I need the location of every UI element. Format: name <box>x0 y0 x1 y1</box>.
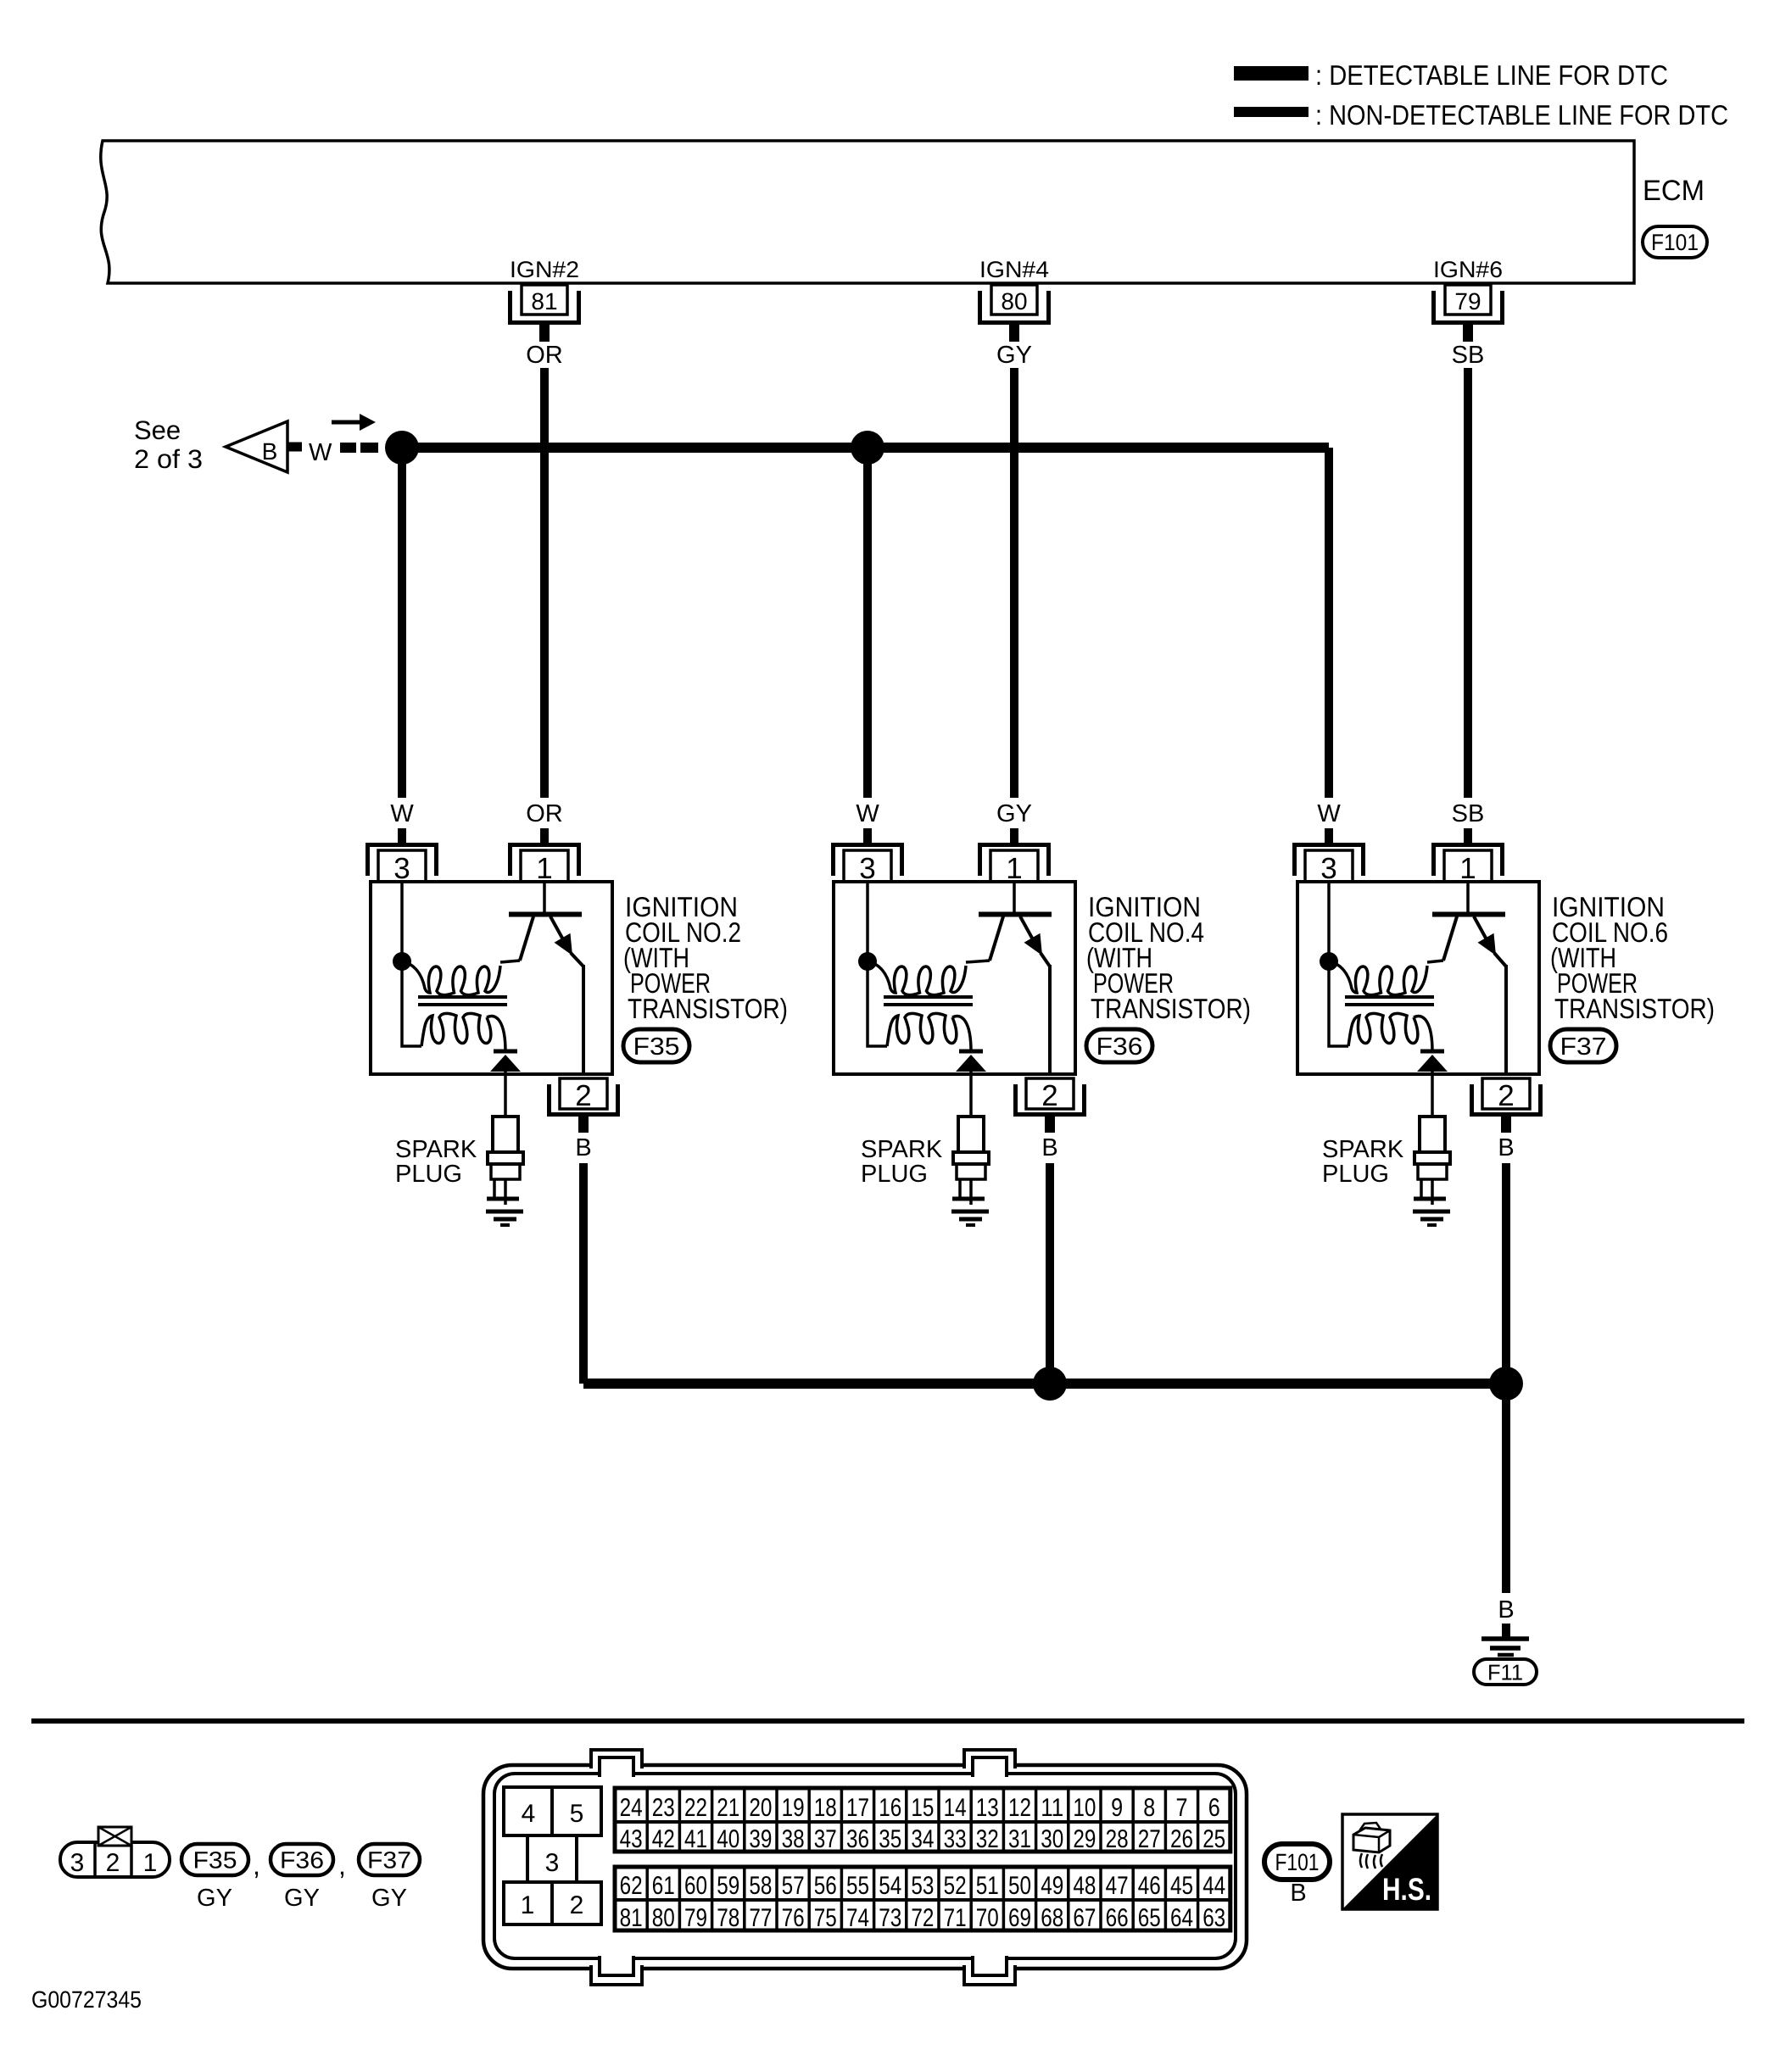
svg-text:TRANSISTOR): TRANSISTOR) <box>1554 993 1715 1024</box>
svg-text:64: 64 <box>1170 1904 1193 1932</box>
svg-text:80: 80 <box>652 1904 675 1932</box>
svg-text:2: 2 <box>575 1079 591 1112</box>
ECM pin grid upper (pins 6-43) <box>615 1788 1230 1852</box>
svg-text:47: 47 <box>1106 1872 1129 1900</box>
transistor Q2 emitter arrow <box>555 933 573 955</box>
svg-text:2: 2 <box>106 1849 120 1877</box>
wire W to coil pin 3 <box>398 828 406 844</box>
wire W bus corner down <box>1325 448 1333 798</box>
ignition coil no.6 pin 2 box <box>1482 1078 1530 1109</box>
svg-text:2: 2 <box>1498 1079 1514 1112</box>
svg-text:28: 28 <box>1106 1825 1129 1853</box>
svg-text:63: 63 <box>1202 1904 1225 1932</box>
wire inside coil 2 from pin 3 <box>402 882 421 1046</box>
pin 79 box <box>1445 285 1491 315</box>
svg-text:26: 26 <box>1170 1825 1193 1853</box>
ground (spark plug 4) <box>951 1210 989 1214</box>
wire stub pin 2 <box>578 1117 589 1133</box>
svg-text:W: W <box>856 800 879 827</box>
wire diode to spark plug <box>1431 1072 1434 1117</box>
transformer secondary coil 2 <box>421 1013 491 1046</box>
wire diode to spark plug <box>969 1072 973 1117</box>
svg-text:4: 4 <box>522 1800 536 1828</box>
ECM box <box>101 141 1634 283</box>
svg-text:1: 1 <box>143 1849 158 1877</box>
emitter to pin 2 wire <box>1041 953 1050 966</box>
svg-text:18: 18 <box>814 1794 837 1822</box>
svg-text:7: 7 <box>1176 1794 1188 1822</box>
wire SB to coil pin 1 <box>1464 828 1472 844</box>
svg-text:31: 31 <box>1008 1825 1031 1853</box>
connector tab bottom <box>964 1964 1015 1972</box>
ground symbol F11 <box>1481 1636 1529 1641</box>
svg-text:79: 79 <box>684 1904 707 1932</box>
pin 80 box <box>991 285 1037 315</box>
svg-text:17: 17 <box>846 1794 869 1822</box>
off-page connector B triangle <box>226 421 287 472</box>
svg-text:TRANSISTOR): TRANSISTOR) <box>1091 993 1251 1024</box>
svg-text:ECM: ECM <box>1643 175 1705 207</box>
svg-text:78: 78 <box>717 1904 739 1932</box>
ignition coil no.4 box <box>834 882 1075 1074</box>
svg-text:B: B <box>1041 1134 1057 1161</box>
svg-text:F37: F37 <box>1560 1033 1607 1061</box>
svg-text:IGN#6: IGN#6 <box>1433 257 1503 282</box>
separator line <box>31 1718 1744 1724</box>
wire GY to coil pin 1 <box>1010 828 1018 844</box>
spark plug 6 collar <box>1415 1152 1450 1164</box>
pin 81 box <box>522 285 567 315</box>
svg-text:9: 9 <box>1111 1794 1123 1822</box>
ECM connector inner shell <box>494 1774 1236 1958</box>
svg-text:59: 59 <box>717 1872 739 1900</box>
transistor Q6 emitter arrow <box>1478 933 1497 955</box>
svg-text:2: 2 <box>570 1891 584 1919</box>
svg-text:49: 49 <box>1041 1872 1063 1900</box>
svg-text:67: 67 <box>1073 1904 1096 1932</box>
svg-text:74: 74 <box>846 1904 869 1932</box>
ignition coil no.2 pin 2 box <box>560 1078 607 1109</box>
svg-text:GY: GY <box>371 1885 407 1912</box>
transformer core coil 6 <box>1345 995 1434 999</box>
primary to transistor wire <box>1427 961 1443 962</box>
wire W to coil pin 3 <box>1325 828 1333 844</box>
svg-text:73: 73 <box>879 1904 901 1932</box>
svg-text:34: 34 <box>911 1825 934 1853</box>
svg-text:46: 46 <box>1138 1872 1161 1900</box>
transformer primary coil 6 <box>1329 961 1427 995</box>
ECM connector outer shell <box>483 1765 1247 1969</box>
transformer primary coil 4 <box>868 961 966 995</box>
wire B coil 6 down <box>1502 1163 1510 1384</box>
wire stub from triangle <box>287 443 302 452</box>
transistor Q2 base wire <box>543 882 546 912</box>
svg-text:20: 20 <box>749 1794 772 1822</box>
svg-text:57: 57 <box>782 1872 805 1900</box>
ignition coil no.6 pin 2 bracket <box>1472 1084 1541 1115</box>
primary to transistor wire <box>966 961 990 962</box>
svg-text:B: B <box>1498 1134 1514 1161</box>
svg-text:F36: F36 <box>280 1847 324 1874</box>
connector tab top <box>591 1762 642 1769</box>
svg-text:16: 16 <box>879 1794 901 1822</box>
svg-text:71: 71 <box>944 1904 967 1932</box>
wire stub ground <box>1502 1624 1510 1637</box>
svg-text:B: B <box>575 1134 591 1161</box>
svg-text:39: 39 <box>749 1825 772 1853</box>
ECM pin grid lower (pins 44-81) <box>615 1867 1230 1930</box>
ignition coil no.6 pin 1 bracket <box>1434 845 1503 877</box>
svg-text:25: 25 <box>1202 1825 1225 1853</box>
secondary to diode wire <box>487 1017 505 1051</box>
pin 80 bracket <box>980 291 1049 323</box>
transformer secondary coil 6 <box>1348 1013 1418 1046</box>
svg-text:54: 54 <box>879 1872 901 1900</box>
coil connector face pill <box>60 1842 170 1877</box>
ignition coil no.6 box <box>1297 882 1539 1074</box>
spark plug 6 lower <box>1418 1164 1447 1179</box>
wire W bus horizontal <box>386 443 1329 453</box>
ignition coil no.4 pin 2 bracket <box>1016 1084 1085 1115</box>
svg-text:65: 65 <box>1138 1904 1161 1932</box>
ignition coil no.6 pin 3 bracket <box>1295 845 1364 877</box>
spark plug 2 collar <box>488 1152 523 1164</box>
svg-text:G00727345: G00727345 <box>31 1986 142 2013</box>
transistor Q2 collector diag <box>520 916 533 961</box>
junction dot coil 6 <box>1320 952 1338 971</box>
ground (spark plug 2) <box>486 1210 523 1214</box>
svg-text:80: 80 <box>1001 288 1027 315</box>
connector tab bottom <box>591 1964 642 1972</box>
spark plug 4 lower <box>957 1164 985 1179</box>
svg-text:SB: SB <box>1452 800 1485 827</box>
diode D2 <box>490 1055 521 1072</box>
wire inside coil 4 from pin 3 <box>868 882 887 1046</box>
pin 81 bracket <box>511 291 579 323</box>
transformer secondary coil 4 <box>887 1013 957 1046</box>
ignition coil no.4 pin 1 bracket <box>980 845 1049 877</box>
svg-text:: NON-DETECTABLE LINE FOR DTC: : NON-DETECTABLE LINE FOR DTC <box>1315 99 1728 131</box>
svg-text:15: 15 <box>911 1794 934 1822</box>
svg-text:F101: F101 <box>1651 230 1699 255</box>
svg-text:42: 42 <box>652 1825 675 1853</box>
svg-text:21: 21 <box>717 1794 739 1822</box>
connector F101 (ECM) <box>1643 226 1707 258</box>
junction dot coil 4 <box>858 952 877 971</box>
svg-text:F11: F11 <box>1487 1659 1523 1685</box>
ignition coil no.2 pin 1 bracket <box>511 845 579 877</box>
junction dot D <box>1489 1367 1523 1401</box>
wire B coil 4 down <box>1046 1163 1054 1384</box>
svg-text:23: 23 <box>652 1794 675 1822</box>
transformer primary coil 2 <box>402 961 500 995</box>
ignition coil no.4 pin 2 box <box>1026 1078 1074 1109</box>
ignition coil no.4 pin 3 bracket <box>834 845 902 877</box>
svg-text:PLUG: PLUG <box>861 1161 928 1188</box>
primary to transistor wire <box>500 961 520 962</box>
svg-text:55: 55 <box>846 1872 869 1900</box>
transistor Q4 base bar <box>979 912 1052 917</box>
wire stub pin 2 <box>1501 1117 1511 1133</box>
svg-text:70: 70 <box>976 1904 999 1932</box>
wire stub pin 81 <box>539 325 550 342</box>
wire W to coil pin 3 <box>863 828 872 844</box>
svg-text:38: 38 <box>782 1825 805 1853</box>
spark plug 4 electrodes <box>969 1179 973 1205</box>
svg-text:SPARK: SPARK <box>1322 1136 1404 1163</box>
svg-text:36: 36 <box>846 1825 869 1853</box>
svg-text:51: 51 <box>976 1872 999 1900</box>
ignition coil no.4 pin 3 box <box>844 850 891 882</box>
svg-text:50: 50 <box>1008 1872 1031 1900</box>
connector F35 <box>623 1029 689 1062</box>
coil connector dividers <box>93 1842 97 1877</box>
svg-text:35: 35 <box>879 1825 901 1853</box>
transistor Q6 base bar <box>1432 912 1505 917</box>
connector F36 <box>1086 1029 1152 1062</box>
svg-text:81: 81 <box>531 288 557 315</box>
diode D4 cathode bar <box>959 1050 983 1054</box>
svg-text:TRANSISTOR): TRANSISTOR) <box>628 993 788 1024</box>
svg-text:75: 75 <box>814 1904 837 1932</box>
spark plug 6 electrodes <box>1431 1179 1434 1205</box>
transistor Q2 base bar <box>509 912 582 917</box>
svg-text:12: 12 <box>1008 1794 1031 1822</box>
svg-text:58: 58 <box>749 1872 772 1900</box>
ignition coil no.6 pin 1 box <box>1444 850 1492 882</box>
svg-text:W: W <box>390 800 414 827</box>
svg-text:1: 1 <box>521 1891 535 1919</box>
connector F35 (bottom) <box>181 1844 248 1875</box>
svg-text:IGN#4: IGN#4 <box>979 257 1049 282</box>
emitter to pin 2 wire <box>571 953 583 966</box>
transistor Q4 base wire <box>1013 882 1016 912</box>
svg-text:61: 61 <box>652 1872 675 1900</box>
svg-text:F101: F101 <box>1275 1849 1320 1875</box>
svg-text:F36: F36 <box>1096 1033 1143 1061</box>
svg-text:8: 8 <box>1143 1794 1155 1822</box>
H.S. icon plug glyph <box>1360 1823 1380 1833</box>
transistor Q4 collector diag <box>990 916 1003 961</box>
junction dot B <box>851 431 884 465</box>
transistor Q2 emitter diag <box>550 916 564 941</box>
svg-text:69: 69 <box>1008 1904 1031 1932</box>
spark plug 2 electrodes <box>504 1179 507 1205</box>
svg-text:29: 29 <box>1073 1825 1096 1853</box>
direction arrow <box>332 421 361 425</box>
connector tab top <box>964 1762 1015 1769</box>
svg-text:32: 32 <box>976 1825 999 1853</box>
wire diode to spark plug <box>504 1072 507 1117</box>
svg-text:52: 52 <box>944 1872 967 1900</box>
diode D2 cathode bar <box>494 1050 517 1054</box>
svg-text:2: 2 <box>1041 1079 1057 1112</box>
svg-text:48: 48 <box>1073 1872 1096 1900</box>
wire OR vertical <box>540 368 549 798</box>
svg-text:22: 22 <box>684 1794 707 1822</box>
svg-text:H.S.: H.S. <box>1382 1872 1431 1907</box>
svg-text:62: 62 <box>620 1872 643 1900</box>
svg-text:GY: GY <box>996 342 1032 369</box>
svg-text:W: W <box>1317 800 1341 827</box>
svg-text:IGN#2: IGN#2 <box>510 257 579 282</box>
svg-text:F35: F35 <box>633 1033 680 1061</box>
connector F36 (bottom) <box>271 1844 333 1875</box>
ignition coil no.4 pin 1 box <box>990 850 1038 882</box>
svg-text:40: 40 <box>717 1825 739 1853</box>
svg-text:79: 79 <box>1454 288 1481 315</box>
diode D4 <box>956 1055 986 1072</box>
svg-text:,: , <box>338 1850 346 1880</box>
svg-text:,: , <box>253 1850 260 1880</box>
spark plug 2 body <box>493 1117 518 1152</box>
connector F37 (bottom) <box>359 1844 420 1875</box>
wire B bus horizontal <box>583 1379 1506 1389</box>
svg-text:41: 41 <box>684 1825 707 1853</box>
svg-text:72: 72 <box>911 1904 934 1932</box>
H.S. icon triangle <box>1342 1814 1437 1909</box>
wire B to ground <box>1502 1384 1510 1593</box>
pin cells 4 5 <box>504 1787 601 1835</box>
legend non-detectable bar <box>1234 107 1308 117</box>
junction dot A <box>385 431 419 465</box>
svg-text:44: 44 <box>1202 1872 1225 1900</box>
svg-text:19: 19 <box>782 1794 805 1822</box>
wire W drop 2 <box>863 453 872 798</box>
transistor Q4 emitter arrow <box>1024 933 1043 955</box>
svg-text:45: 45 <box>1170 1872 1193 1900</box>
svg-text:3: 3 <box>545 1849 560 1877</box>
svg-text:B: B <box>262 438 278 465</box>
svg-text:SPARK: SPARK <box>395 1136 477 1163</box>
svg-text:10: 10 <box>1073 1794 1096 1822</box>
H.S. icon frame <box>1342 1814 1437 1909</box>
svg-text:2 of 3: 2 of 3 <box>134 444 203 474</box>
svg-text:13: 13 <box>976 1794 999 1822</box>
ignition coil no.2 pin 2 bracket <box>550 1084 618 1115</box>
svg-text:: DETECTABLE LINE FOR DTC: : DETECTABLE LINE FOR DTC <box>1315 59 1668 91</box>
svg-text:F35: F35 <box>193 1847 237 1874</box>
spark plug 4 collar <box>953 1152 989 1164</box>
svg-text:GY: GY <box>284 1885 320 1912</box>
svg-text:OR: OR <box>526 342 563 369</box>
svg-text:6: 6 <box>1208 1794 1220 1822</box>
ignition coil no.2 box <box>371 882 612 1074</box>
svg-text:GY: GY <box>996 800 1032 827</box>
svg-text:68: 68 <box>1041 1904 1063 1932</box>
wire B coil 2 down <box>579 1163 588 1384</box>
svg-text:See: See <box>134 415 181 445</box>
pin cells 1 2 <box>504 1882 601 1924</box>
transformer core coil 2 <box>418 995 507 999</box>
svg-text:OR: OR <box>526 800 563 827</box>
emitter to pin 2 wire <box>1494 953 1506 966</box>
svg-text:76: 76 <box>782 1904 805 1932</box>
wire stub pin 80 <box>1009 325 1019 342</box>
connector F11 <box>1474 1659 1537 1685</box>
svg-text:SPARK: SPARK <box>861 1136 943 1163</box>
connector F101 (bottom) <box>1264 1844 1330 1880</box>
pin 79 bracket <box>1434 291 1503 323</box>
svg-text:77: 77 <box>749 1904 772 1932</box>
wire W drop 1 <box>398 453 406 798</box>
svg-text:PLUG: PLUG <box>1322 1161 1389 1188</box>
svg-text:SB: SB <box>1452 342 1485 369</box>
svg-text:43: 43 <box>620 1825 643 1853</box>
transistor Q6 collector diag <box>1443 916 1457 961</box>
svg-text:37: 37 <box>814 1825 837 1853</box>
connector F37 <box>1550 1029 1616 1062</box>
wire OR to coil pin 1 <box>540 828 549 844</box>
wire stub pin 2 <box>1045 1117 1055 1133</box>
ignition coil no.2 pin 3 box <box>378 850 426 882</box>
svg-text:24: 24 <box>620 1794 643 1822</box>
svg-text:PLUG: PLUG <box>395 1161 462 1188</box>
svg-text:14: 14 <box>944 1794 967 1822</box>
junction dot coil 2 <box>393 952 411 971</box>
legend detectable bar <box>1234 66 1308 81</box>
svg-text:27: 27 <box>1138 1825 1161 1853</box>
ignition coil no.2 pin 3 bracket <box>368 845 437 877</box>
ignition coil no.6 pin 3 box <box>1305 850 1353 882</box>
transformer core coil 4 <box>884 995 973 999</box>
spark plug 2 lower <box>491 1164 520 1179</box>
svg-text:53: 53 <box>911 1872 934 1900</box>
transistor Q6 base wire <box>1466 882 1470 912</box>
secondary to diode wire <box>952 1017 971 1051</box>
svg-text:33: 33 <box>944 1825 967 1853</box>
svg-text:60: 60 <box>684 1872 707 1900</box>
transistor Q6 emitter diag <box>1474 916 1487 941</box>
svg-text:3: 3 <box>70 1849 85 1877</box>
svg-text:B: B <box>1498 1596 1514 1624</box>
ignition coil no.2 pin 1 box <box>521 850 568 882</box>
wire stub pin 79 <box>1463 325 1473 342</box>
svg-text:F37: F37 <box>367 1847 411 1874</box>
svg-text:5: 5 <box>570 1800 584 1828</box>
pin cell 3 <box>526 1835 529 1882</box>
coil connector key box <box>98 1827 131 1846</box>
spark plug 6 body <box>1420 1117 1445 1152</box>
transistor Q4 emitter diag <box>1020 916 1034 941</box>
svg-text:GY: GY <box>197 1885 232 1912</box>
diode D6 <box>1417 1055 1448 1072</box>
spark plug 4 body <box>958 1117 984 1152</box>
wire GY vertical <box>1010 368 1018 798</box>
wire dashes <box>340 443 356 453</box>
svg-text:11: 11 <box>1041 1794 1063 1822</box>
diode D6 cathode bar <box>1420 1050 1444 1054</box>
wire inside coil 6 from pin 3 <box>1329 882 1348 1046</box>
svg-text:81: 81 <box>620 1904 643 1932</box>
ground (spark plug 6) <box>1413 1210 1450 1214</box>
svg-text:W: W <box>309 439 332 466</box>
svg-text:66: 66 <box>1106 1904 1129 1932</box>
wire SB vertical <box>1464 368 1472 798</box>
svg-text:56: 56 <box>814 1872 837 1900</box>
svg-text:30: 30 <box>1041 1825 1063 1853</box>
secondary to diode wire <box>1414 1017 1432 1051</box>
junction dot C <box>1033 1367 1067 1401</box>
svg-text:B: B <box>1290 1880 1306 1907</box>
